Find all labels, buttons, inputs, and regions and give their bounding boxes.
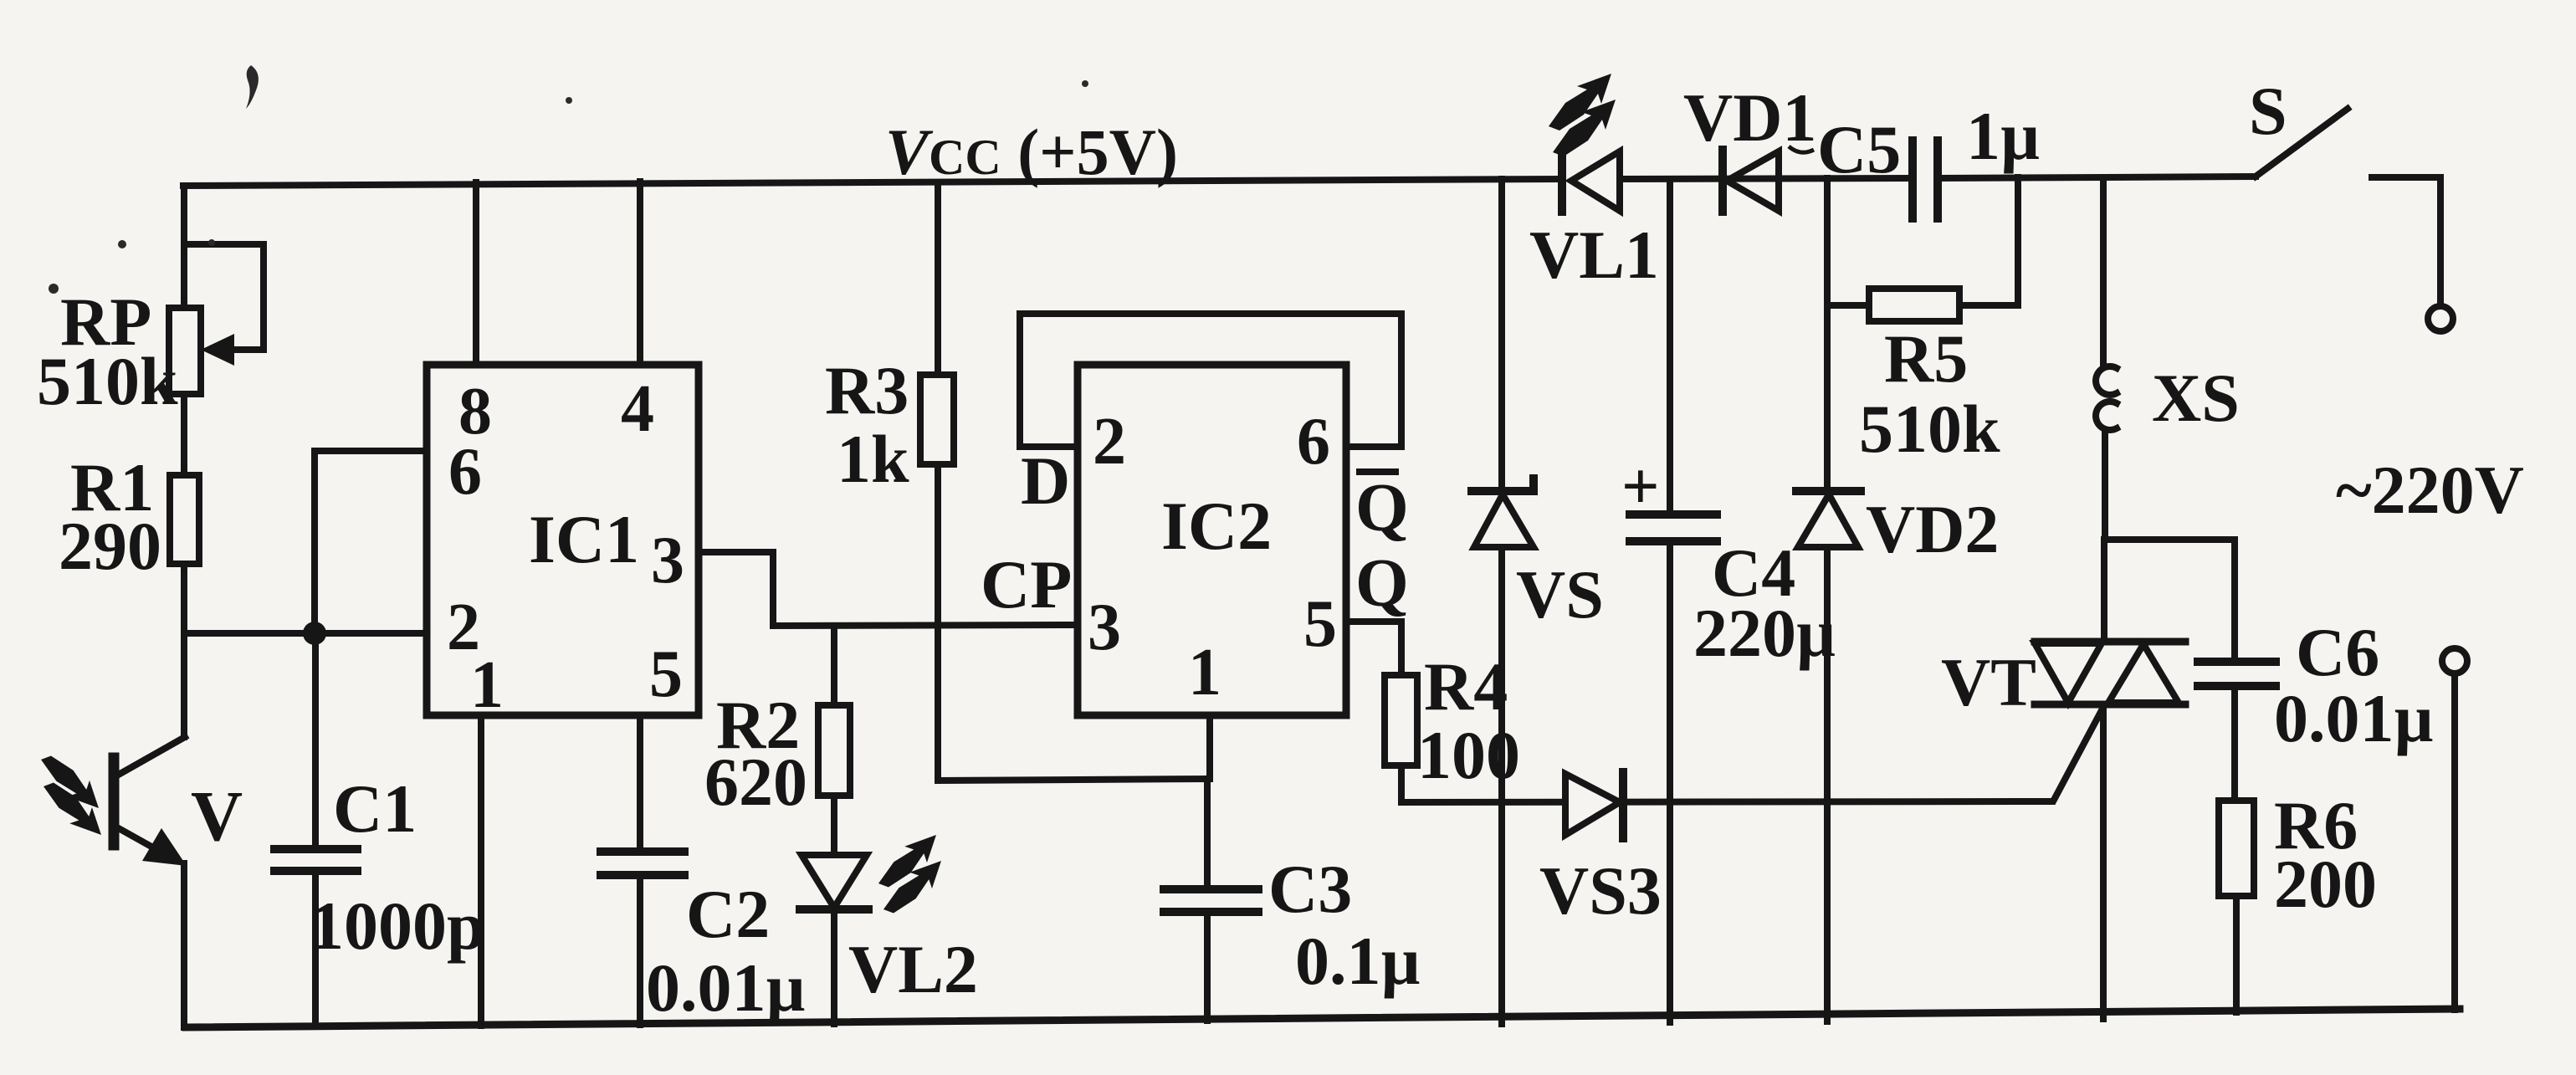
svg-text:VD2: VD2	[1866, 491, 1999, 567]
svg-text:C2: C2	[686, 876, 770, 952]
diode VS3	[1565, 772, 1623, 838]
op-amp IC1	[427, 365, 699, 715]
svg-text:C1: C1	[333, 770, 417, 847]
svg-text:2: 2	[1093, 405, 1126, 479]
svg-text:C5: C5	[1817, 111, 1901, 187]
potentiometer RP	[169, 244, 264, 394]
svg-text:VL2: VL2	[848, 931, 978, 1007]
svg-text:Q: Q	[1355, 545, 1409, 621]
diode VD2 branch wire	[1824, 178, 1831, 1021]
resistor R6	[2219, 801, 2254, 1012]
wire IC1 pin2 route	[184, 630, 427, 637]
wire AC terminal bottom	[2442, 648, 2467, 1010]
svg-text:VD1: VD1	[1683, 79, 1816, 156]
svg-text:0.01µ: 0.01µ	[646, 950, 806, 1026]
svg-text:100: 100	[1417, 717, 1520, 793]
zener diode VS	[1472, 479, 1534, 547]
zener VS branch wire	[1498, 179, 1505, 1024]
svg-text:290: 290	[59, 508, 161, 584]
svg-text:~220V: ~220V	[2336, 452, 2524, 528]
svg-text:1µ: 1µ	[1966, 98, 2040, 174]
svg-text:C3: C3	[1268, 851, 1352, 927]
label Qbar	[1355, 469, 1409, 545]
flip-flop IC2	[1078, 365, 1346, 715]
wire IC1 pin1	[478, 715, 484, 1026]
svg-text:510k: 510k	[37, 343, 178, 419]
diode VD2	[1796, 491, 1861, 547]
capacitor C6	[2198, 662, 2276, 801]
scan speckles	[49, 65, 1814, 294]
LED VL1	[1549, 74, 1620, 212]
wire XS to triac	[2101, 540, 2107, 642]
svg-text:IC1: IC1	[529, 501, 639, 577]
wire IC1 pin6 route	[315, 451, 427, 626]
wire IC1 pin8	[473, 182, 479, 365]
wire IC2 feedback loop pin6 to pin2	[1020, 314, 1401, 447]
wire left vertical branch	[181, 186, 187, 1027]
svg-text:3: 3	[651, 524, 684, 597]
LED VL2	[800, 835, 941, 1024]
svg-text:V: V	[191, 776, 243, 856]
wire top Vcc rail	[183, 177, 2256, 186]
resistor R5	[1827, 177, 2018, 321]
wire IC1 pin4	[637, 182, 643, 365]
svg-text:3: 3	[1088, 591, 1121, 664]
wire IC2 pin1 to R3/C3 node	[938, 715, 1210, 781]
svg-text:1000p: 1000p	[310, 888, 485, 964]
svg-text:6: 6	[448, 435, 482, 509]
svg-text:VL1: VL1	[1529, 217, 1659, 293]
svg-text:D: D	[1021, 443, 1070, 519]
wire AC terminal top	[2372, 177, 2453, 331]
svg-text:6: 6	[1297, 405, 1330, 479]
svg-text:R3: R3	[825, 352, 909, 428]
svg-text:XS: XS	[2152, 360, 2240, 436]
svg-text:0.1µ: 0.1µ	[1295, 923, 1421, 999]
resistor R3	[920, 183, 954, 781]
switch S	[2256, 109, 2348, 177]
svg-text:CP: CP	[981, 546, 1072, 622]
capacitor C5	[1913, 141, 1938, 218]
svg-text:510k: 510k	[1859, 391, 2000, 467]
svg-text:VS3: VS3	[1539, 852, 1662, 929]
svg-text:+: +	[1621, 450, 1660, 524]
svg-text:R4: R4	[1424, 648, 1508, 724]
svg-text:200: 200	[2274, 846, 2377, 922]
svg-text:1: 1	[1188, 636, 1221, 709]
svg-text:S: S	[2249, 73, 2287, 149]
capacitor C4 branch	[1667, 179, 1673, 1022]
wire gate line with VS3	[1401, 710, 2102, 802]
svg-text:R5: R5	[1884, 320, 1968, 397]
capacitor C4 plates	[1630, 514, 1717, 541]
svg-text:VT: VT	[1941, 644, 2036, 720]
diode VD1	[1723, 150, 1779, 212]
wire XS node to C6	[2105, 540, 2235, 662]
svg-text:5: 5	[1303, 587, 1337, 661]
resistor R1	[170, 475, 199, 564]
svg-text:4: 4	[621, 372, 654, 446]
svg-text:1: 1	[470, 648, 504, 722]
socket XS	[2096, 177, 2117, 540]
triac VT	[2035, 642, 2185, 1019]
svg-text:Q: Q	[1355, 469, 1409, 545]
resistor R4	[1385, 675, 1417, 802]
svg-text:1k: 1k	[837, 421, 909, 497]
capacitor C3	[1164, 779, 1258, 1021]
wire bottom ground rail	[186, 1009, 2460, 1027]
wire IC1 pin3 to IC2 CP	[699, 552, 1078, 626]
svg-text:VS: VS	[1516, 556, 1604, 632]
svg-text:0.01µ: 0.01µ	[2274, 680, 2434, 756]
svg-text:C6: C6	[2296, 614, 2379, 690]
node junction dot	[303, 622, 326, 645]
capacitor C1	[274, 633, 357, 1026]
svg-text:220µ: 220µ	[1693, 595, 1836, 671]
resistor R2	[818, 626, 850, 855]
svg-text:5: 5	[649, 637, 683, 711]
wire IC2 pin5 to R4	[1346, 622, 1401, 675]
svg-text:IC2: IC2	[1161, 488, 1272, 564]
phototransistor V	[41, 737, 187, 866]
capacitor C2	[601, 715, 684, 1025]
svg-text:620: 620	[704, 744, 807, 820]
